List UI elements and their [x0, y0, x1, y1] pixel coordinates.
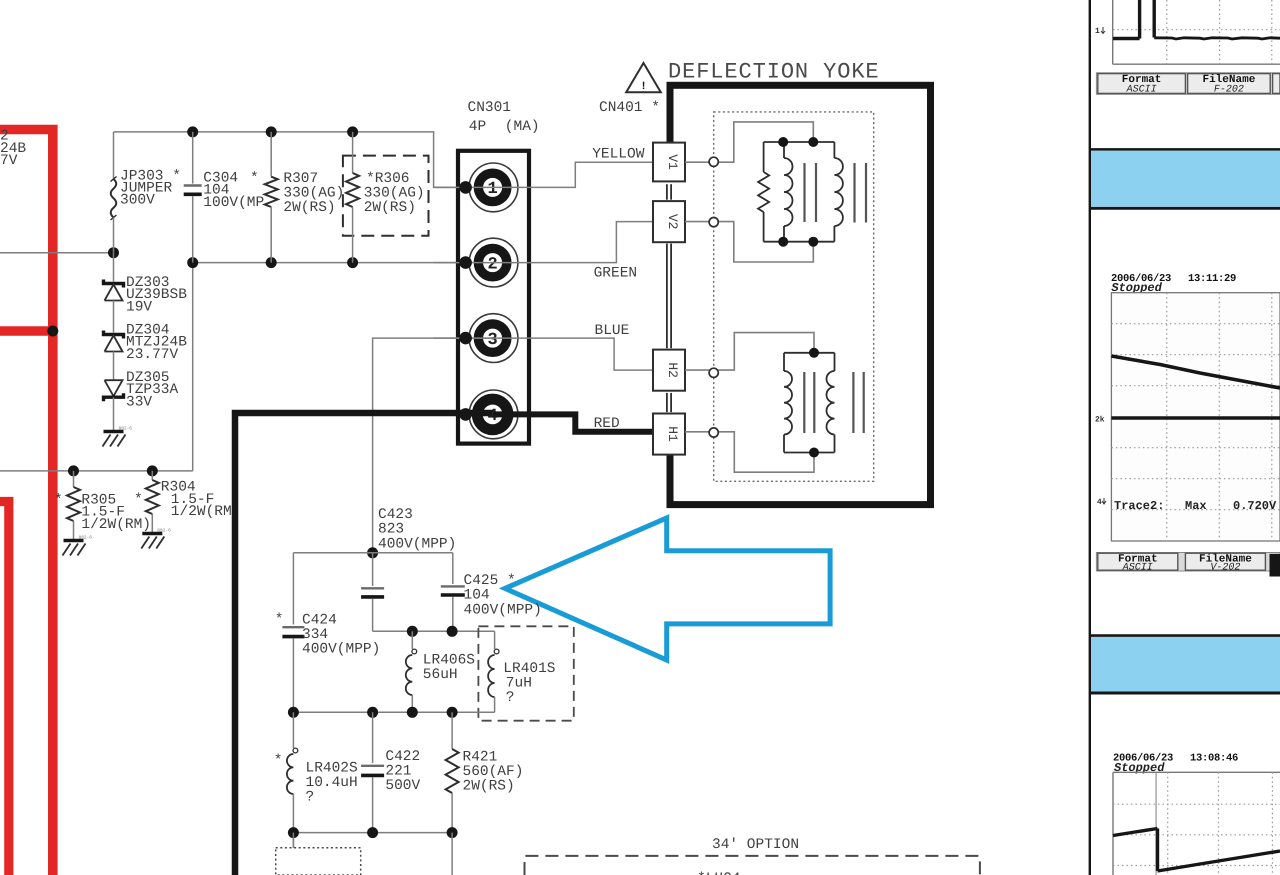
connector CN301 pin 3 — [469, 314, 518, 363]
svg-text:GREEN: GREEN — [594, 266, 638, 282]
scope1 buttons — [1096, 73, 1280, 95]
svg-text:882-6: 882-6 — [119, 426, 133, 432]
connector CN301 body — [458, 151, 529, 444]
svg-text:400V(MPP): 400V(MPP) — [302, 642, 380, 658]
node R305 top — [68, 465, 79, 476]
svg-text:F-202: F-202 — [1214, 84, 1244, 95]
svg-text:ASCII: ASCII — [1122, 563, 1153, 574]
scope3 grid box — [1112, 772, 1114, 875]
wire bottom rail — [293, 832, 452, 834]
svg-text:400V(MPP): 400V(MPP) — [464, 602, 542, 618]
core lines H right — [852, 372, 854, 433]
terminal box H2 — [653, 350, 685, 391]
connector CN301 pin 1 — [469, 163, 518, 212]
wire red bus lower-left — [0, 502, 9, 875]
separator bar blue 1 — [1089, 148, 1280, 151]
svg-text:H1: H1 — [665, 426, 680, 442]
svg-text:4P: 4P — [469, 119, 486, 135]
deflection yoke border box — [670, 85, 931, 504]
node bottom rail C304 — [187, 257, 198, 268]
pin circle V1 — [709, 157, 718, 166]
dashed box 34 option — [525, 856, 980, 875]
svg-text:56uH: 56uH — [423, 667, 458, 683]
svg-text:?: ? — [306, 790, 315, 806]
resistor R307 — [270, 132, 272, 177]
svg-text:V2: V2 — [665, 214, 680, 230]
svg-text:0.720V: 0.720V — [1233, 499, 1277, 513]
capacitor C425 — [452, 553, 454, 584]
wire thick red-channel horizontal and down — [235, 413, 493, 875]
svg-text:CN301: CN301 — [468, 100, 512, 116]
wire pin3 to H2 BLUE — [434, 338, 653, 370]
wire H2 to horizontal coil top — [685, 333, 814, 371]
scope column left border — [1089, 0, 1091, 875]
svg-text:*: * — [275, 612, 284, 628]
svg-text:330(AG): 330(AG) — [283, 186, 344, 202]
node H network corners — [809, 348, 819, 358]
svg-text:?: ? — [506, 690, 515, 706]
svg-text:BLUE: BLUE — [595, 323, 630, 339]
node C423 top junction — [367, 547, 378, 558]
node CN301 pin 2 junction — [459, 256, 472, 269]
svg-text:13:11:29: 13:11:29 — [1188, 273, 1236, 285]
ground R305 — [64, 539, 84, 542]
resistor R421 — [451, 712, 453, 749]
wire horizontal into JP303 node — [0, 252, 114, 254]
scope2 trace diagonal — [1111, 356, 1280, 388]
svg-text:V-202: V-202 — [1210, 563, 1240, 574]
diode DZ304 — [104, 331, 124, 339]
wire pin1 to V1 YELLOW — [434, 162, 653, 187]
svg-text:13:08:46: 13:08:46 — [1190, 753, 1238, 765]
blue option arrow — [505, 518, 830, 660]
wire DZ303 to DZ304 — [113, 301, 115, 333]
wire mid rail — [293, 711, 494, 713]
svg-text:3: 3 — [487, 331, 497, 350]
svg-text:2W(RS): 2W(RS) — [364, 200, 416, 216]
node mid rail C424 — [288, 707, 299, 718]
wire red bus vertical with top arm — [0, 130, 53, 875]
wire junction right to C425 branch — [373, 552, 453, 554]
scope1 waveform — [1113, 0, 1154, 39]
svg-text:Trace2:: Trace2: — [1114, 499, 1164, 513]
pin circle H1 — [709, 428, 718, 437]
wire V1 to vertical coil top — [685, 122, 813, 162]
svg-text:882-6: 882-6 — [79, 535, 93, 541]
resistor R306 dashed option box — [343, 156, 429, 236]
node R304 top — [147, 465, 158, 476]
scope2 trace flat — [1111, 416, 1280, 419]
svg-text:33V: 33V — [126, 394, 152, 410]
node V network corners — [778, 137, 788, 147]
svg-text:34' OPTION: 34' OPTION — [712, 837, 799, 853]
inductor LR401S dashed box — [478, 626, 573, 720]
twisted pair symbol V2-H2 — [666, 244, 668, 349]
connector CN301 pin 4 — [469, 390, 518, 439]
wire horizontal lower net to R305 R304 — [0, 470, 193, 472]
node CN301 pin 1 junction — [459, 181, 472, 194]
svg-text:334: 334 — [302, 627, 328, 643]
jumper JP303 — [113, 132, 115, 179]
svg-text:C425 *: C425 * — [464, 573, 516, 589]
svg-text:2k: 2k — [1095, 416, 1105, 425]
node CN301 pin 3 junction — [459, 332, 472, 345]
wire pin2 to V2 GREEN — [434, 222, 653, 263]
svg-text:823: 823 — [378, 522, 404, 538]
ground DZ chain — [104, 430, 124, 433]
svg-text:C423: C423 — [378, 507, 413, 523]
node LR406S top — [407, 626, 418, 637]
inductor yoke V right — [833, 142, 835, 158]
scope3 waveform — [1113, 829, 1280, 872]
svg-text:*: * — [134, 492, 143, 508]
resistor R306 — [352, 132, 354, 173]
node C425 bottom — [447, 626, 458, 637]
svg-text:YELLOW: YELLOW — [592, 147, 645, 163]
resistor yoke damping — [763, 142, 765, 172]
capacitor C304 — [192, 132, 194, 184]
yoke inner dotted box — [714, 112, 874, 481]
node bottom rail right — [447, 827, 458, 838]
separator bar blue 2 — [1089, 634, 1280, 637]
node top rail R306 — [347, 126, 358, 137]
svg-text:2: 2 — [487, 255, 497, 274]
svg-text:1/2W(RM): 1/2W(RM) — [81, 517, 151, 533]
core lines V middle — [803, 163, 805, 222]
node bottom rail R307 — [266, 257, 277, 268]
scope2 grid box — [1111, 293, 1280, 541]
svg-text:104: 104 — [464, 588, 490, 604]
inductor yoke V left — [783, 142, 785, 158]
yoke border cover behind terminal boxes — [664, 144, 679, 454]
svg-text:1/2W(RM): 1/2W(RM) — [171, 504, 241, 520]
scope2 black button — [1270, 554, 1280, 577]
svg-text:!: ! — [640, 81, 647, 93]
inductor LR401S — [494, 631, 496, 649]
terminal box H1 — [653, 414, 685, 455]
wire pin4 to H1 RED thick — [493, 414, 653, 431]
svg-text:2W(RS): 2W(RS) — [463, 779, 515, 795]
wire H1 to horizontal coil bottom — [685, 432, 814, 472]
wire DZ305 to ground — [113, 397, 115, 431]
svg-text:1: 1 — [487, 180, 497, 199]
wire top rail — [114, 132, 493, 188]
twisted pair symbol V1-V2 — [666, 184, 668, 200]
wire lower junction row — [373, 630, 495, 632]
scope2 buttons — [1096, 553, 1280, 572]
svg-text:100V(MP: 100V(MP — [203, 195, 264, 211]
twisted pair symbol H2-H1 — [666, 393, 668, 412]
wire DZ chain — [113, 253, 115, 282]
terminal box V2 — [653, 201, 685, 242]
ground R304 — [142, 532, 162, 535]
wire DZ304 to DZ305 — [113, 352, 115, 381]
diode DZ305 — [105, 380, 123, 396]
svg-text:DEFLECTION YOKE: DEFLECTION YOKE — [668, 60, 880, 85]
terminal box V1 — [653, 143, 685, 182]
node top rail R307 — [266, 126, 277, 137]
svg-text:23.77V: 23.77V — [126, 347, 179, 363]
capacitor C422 — [372, 712, 374, 763]
svg-text:2W(RS): 2W(RS) — [283, 200, 335, 216]
inductor yoke H left — [783, 353, 785, 371]
svg-text:500V: 500V — [385, 778, 420, 794]
svg-text:*R306: *R306 — [366, 171, 410, 187]
core lines V right — [853, 163, 855, 223]
svg-text:4: 4 — [1097, 498, 1102, 507]
svg-text:330(AG): 330(AG) — [364, 186, 425, 202]
pin circle V2 — [709, 218, 718, 227]
svg-text:*LH04: *LH04 — [697, 871, 741, 875]
wire red arm joining bus — [0, 326, 53, 336]
wire V2 to vertical coil bottom — [685, 222, 813, 262]
wire junction left to C424 branch — [293, 552, 372, 554]
node mid rail LR406S — [407, 707, 418, 718]
inductor yoke H right — [834, 353, 836, 371]
dotted box bottom left — [276, 848, 361, 875]
wire bottom rail to pin2 — [193, 262, 493, 264]
svg-text:1: 1 — [1095, 27, 1100, 36]
svg-text:19V: 19V — [126, 299, 152, 315]
node mid rail R421 — [447, 707, 458, 718]
svg-text:7V: 7V — [0, 153, 18, 169]
wire vertical link C304 branch down — [192, 263, 194, 471]
resistor R304 — [151, 471, 153, 480]
svg-text:*: * — [250, 171, 259, 187]
svg-text:V1: V1 — [665, 154, 680, 170]
horizontal coil network rails — [784, 352, 835, 354]
inductor LR406S — [411, 631, 413, 649]
svg-text:RED: RED — [594, 416, 620, 432]
node junction on red bus — [47, 326, 58, 337]
node JP303 bottom junction — [108, 247, 119, 258]
node bottom rail R306 — [347, 257, 358, 268]
svg-text:882-6: 882-6 — [157, 528, 171, 534]
wire below bottom rail — [451, 833, 453, 875]
svg-text:(MA): (MA) — [505, 119, 540, 135]
pin circle H2 — [709, 368, 718, 377]
svg-text:400V(MPP): 400V(MPP) — [378, 536, 456, 552]
node top rail C304 — [187, 126, 198, 137]
node bottom rail left — [288, 827, 299, 838]
capacitor C423 — [372, 553, 374, 586]
svg-text:H2: H2 — [665, 362, 680, 378]
svg-text:Max: Max — [1185, 499, 1207, 513]
svg-text:*: * — [54, 493, 63, 509]
diode DZ303 — [104, 280, 124, 288]
inductor LR402S — [292, 712, 294, 748]
node bottom rail mid — [367, 827, 378, 838]
svg-text:300V: 300V — [120, 193, 155, 209]
svg-text:*: * — [274, 753, 283, 769]
node mid rail C422 — [367, 707, 378, 718]
scope1 grid — [1112, 0, 1114, 64]
svg-text:ASCII: ASCII — [1126, 84, 1157, 95]
vertical coil network rails — [764, 141, 835, 143]
wire pin3 left to C423 branch — [373, 338, 493, 553]
resistor R305 — [73, 471, 75, 487]
svg-text:CN401 *: CN401 * — [599, 100, 660, 116]
node CN301 pin 4 junction — [459, 408, 472, 421]
svg-text:R307: R307 — [283, 171, 318, 187]
capacitor C424 — [292, 553, 294, 625]
warning triangle — [626, 63, 661, 92]
core lines H middle — [803, 372, 805, 433]
connector CN301 pin 2 — [469, 238, 518, 287]
